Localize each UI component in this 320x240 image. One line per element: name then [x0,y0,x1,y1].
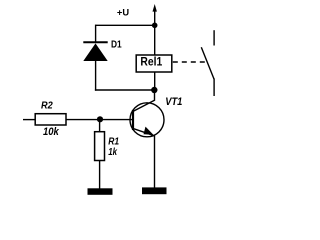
svg-text:1k: 1k [108,146,118,158]
wire: junction to relay coil [154,25,156,55]
transistor VT1 collector diagonal [133,100,154,111]
relay coil Rel1 box [136,55,172,72]
wire: supply vertical above junction [154,10,156,25]
node: top junction dot [152,23,158,29]
svg-text:D1: D1 [111,39,122,50]
wire: base node down to R1 [99,119,101,131]
node: base node dot [97,116,103,122]
transistor VT1 circle [130,103,164,137]
wire: relay coil to collector node [154,72,156,90]
relay contact: upper terminal wire [213,30,215,45]
wire: base node to transistor base [100,119,133,121]
mechanical link (dashed) relay to contact [173,61,208,63]
wire: collector vertical [154,90,156,101]
transistor VT1 emitter diagonal [133,129,154,136]
wire: top rail [96,24,155,26]
svg-text:VT1: VT1 [165,96,182,108]
svg-text:R2: R2 [41,100,53,111]
svg-text:+U: +U [117,8,129,19]
transistor VT1 emitter arrow [144,127,154,135]
diode D1 cathode bar [83,41,107,43]
resistor R2 body [35,114,66,125]
wire: input lead left of R2 [23,119,35,121]
svg-text:Rel1: Rel1 [140,55,162,69]
transistor VT1 base bar [132,110,134,130]
node: collector junction dot [151,87,157,93]
svg-text:10k: 10k [43,126,60,138]
wire: R1 to ground [99,161,101,190]
power arrow +U [153,4,157,12]
wire: bottom of D1 loop [95,89,155,91]
relay contact: lower terminal wire [213,79,215,97]
diode D1 triangle [83,43,107,61]
ground: left ground bar [88,188,113,195]
relay contact: blade [201,47,214,79]
wire: D1 branch lower [95,61,97,91]
resistor R1 body [95,132,105,161]
ground: emitter ground bar [142,187,167,194]
wire: D1 branch upper [95,25,97,43]
wire: R2 to base node [66,119,100,121]
wire: emitter to ground [154,136,156,189]
